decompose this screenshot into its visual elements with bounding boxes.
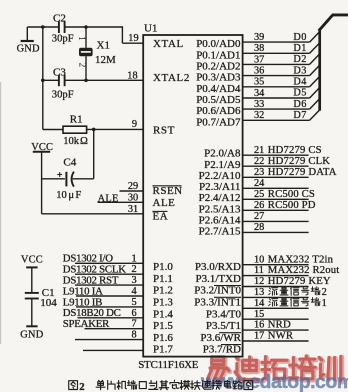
svg-text:37: 37 — [254, 54, 264, 65]
svg-text:P1.7: P1.7 — [153, 344, 173, 356]
svg-text:13: 13 — [254, 287, 264, 298]
wire pin 23 HD7279 DATA — [243, 176, 309, 178]
node junction crystal bottom — [84, 79, 88, 83]
svg-text:P1.4: P1.4 — [153, 308, 173, 320]
svg-text:30pF: 30pF — [52, 90, 74, 101]
wire pin 25 RC500 CS — [243, 198, 309, 200]
svg-text:21: 21 — [254, 145, 264, 156]
resistor R1 — [43, 129, 63, 131]
svg-text:12: 12 — [254, 276, 264, 287]
wire pin 21 HD7279 CS — [243, 154, 309, 156]
svg-text:9: 9 — [132, 119, 137, 130]
svg-text:23: 23 — [254, 167, 264, 178]
node junction R1-C4 — [92, 128, 96, 132]
svg-text:P3.4/T0: P3.4/T0 — [206, 308, 242, 320]
svg-text:P1.5: P1.5 — [153, 320, 173, 332]
svg-text:16: 16 — [254, 320, 264, 331]
capacitor C1 — [25, 292, 39, 294]
svg-text:P2.2/A10: P2.2/A10 — [199, 170, 241, 182]
wire C4 up to R1 node — [93, 129, 95, 178]
wire rail to C3 — [43, 79, 58, 81]
svg-text:NWR: NWR — [268, 330, 294, 342]
wire pin30 ALE — [98, 201, 144, 203]
wire pin 6 DS18B20 DC — [78, 317, 144, 319]
svg-text:39: 39 — [254, 32, 264, 43]
svg-text:D0: D0 — [293, 32, 306, 43]
watermark blue url www.edatop.com — [200, 371, 348, 392]
wire pin 7 SPEAKER — [85, 328, 144, 330]
svg-text:17: 17 — [254, 331, 264, 342]
svg-text:7: 7 — [131, 319, 136, 330]
scan edge artifact — [0, 82, 2, 344]
svg-text:8: 8 — [131, 330, 136, 341]
svg-text:VCC: VCC — [21, 254, 43, 265]
svg-text:31: 31 — [128, 204, 138, 215]
svg-text:μ: μ — [68, 190, 74, 201]
svg-text:GND: GND — [20, 330, 43, 341]
svg-text:D4: D4 — [293, 77, 306, 88]
wire pin 36 data line D3 — [243, 75, 310, 77]
svg-text:19: 19 — [128, 33, 138, 44]
node junction at ground rail top — [41, 25, 45, 29]
wire pin 28 stub — [243, 231, 309, 233]
svg-text:14: 14 — [254, 298, 264, 309]
svg-text:27: 27 — [254, 211, 264, 222]
svg-text:P3.0/RXD: P3.0/RXD — [195, 261, 241, 273]
svg-text:D3: D3 — [293, 65, 306, 76]
svg-text:104: 104 — [40, 297, 57, 309]
watermark red text 易迪拓培训 — [207, 356, 342, 382]
wire pin 22 HD7279 CLK — [243, 165, 309, 167]
svg-text:Ω: Ω — [80, 136, 88, 147]
ground symbol lower — [26, 325, 37, 327]
svg-text:10: 10 — [56, 190, 67, 201]
svg-text:2: 2 — [322, 287, 327, 298]
svg-text:P3.2/INT0: P3.2/INT0 — [194, 285, 241, 297]
wire C3 to pin18 XTAL2 — [65, 79, 143, 81]
svg-text:X1: X1 — [97, 40, 110, 52]
svg-text:P3.7/RD: P3.7/RD — [203, 344, 241, 356]
wire VCC to pin31 EA — [42, 213, 144, 215]
node junction crystal top — [84, 25, 88, 29]
svg-text:HD7279 DATA: HD7279 DATA — [268, 166, 337, 178]
svg-text:P3.6/WR: P3.6/WR — [200, 332, 241, 344]
svg-text:3: 3 — [131, 275, 136, 286]
svg-text:P1.6: P1.6 — [153, 332, 173, 344]
svg-text:P1.3: P1.3 — [153, 297, 173, 309]
wire pin 33 data line D6 — [243, 108, 310, 110]
svg-text:24: 24 — [254, 178, 264, 189]
svg-text:15: 15 — [254, 309, 264, 320]
VCC rail wire — [41, 152, 43, 214]
svg-text:U1: U1 — [144, 23, 157, 35]
svg-text:P0.0/AD0: P0.0/AD0 — [196, 38, 241, 50]
wire pin 4 L9110 IA — [76, 295, 143, 297]
wire pin 8 pin 8 stub — [75, 339, 143, 341]
IC U1 box STC11F16XE — [143, 35, 242, 357]
wire pin 39 data line D0 — [243, 41, 310, 43]
crystal X1 — [85, 27, 87, 48]
svg-text:22: 22 — [254, 156, 264, 167]
wire pin 3 DS1302 RST — [75, 284, 143, 286]
wire pin 26 RC500 PD — [243, 209, 309, 211]
capacitor C3 — [58, 75, 60, 87]
wire pin 1 DS1302 I/O — [75, 262, 143, 264]
svg-text:28: 28 — [254, 222, 264, 233]
svg-text:1: 1 — [322, 298, 327, 309]
wire pin 10 MAX232 T2in — [243, 264, 309, 266]
svg-text:26: 26 — [254, 200, 264, 211]
svg-text:P0.7/AD7: P0.7/AD7 — [196, 116, 241, 128]
svg-text:P0.6/AD6: P0.6/AD6 — [196, 105, 241, 117]
svg-text:www.edatop.com: www.edatop.com — [200, 371, 348, 392]
svg-text:4: 4 — [131, 286, 136, 297]
svg-text:29: 29 — [128, 181, 138, 192]
data bus corner to top right — [319, 15, 333, 31]
svg-text:R1: R1 — [70, 113, 83, 125]
wire pin 38 data line D1 — [243, 52, 310, 54]
svg-text:34: 34 — [254, 88, 264, 99]
svg-text:12M: 12M — [95, 54, 116, 66]
svg-text:EA: EA — [153, 211, 169, 223]
svg-text:SPEAKER: SPEAKER — [63, 318, 110, 330]
wire pin 34 data line D5 — [243, 97, 310, 99]
svg-text:33: 33 — [254, 99, 264, 110]
wire pin 13 流量信号端2 — [243, 296, 309, 298]
svg-text:RC500 PD: RC500 PD — [268, 199, 316, 211]
svg-text:STC11F16XE: STC11F16XE — [138, 359, 199, 371]
svg-text:P1.1: P1.1 — [153, 273, 173, 285]
ground rail wire — [42, 27, 44, 130]
svg-text:2: 2 — [79, 381, 84, 392]
data bus vertical — [318, 29, 321, 110]
svg-text:ALE: ALE — [153, 197, 176, 209]
wire pin 37 data line D2 — [243, 63, 310, 65]
wire pin 12 HD7279 KEY — [243, 286, 309, 288]
svg-text:30: 30 — [128, 192, 138, 203]
wire pin 17 NWR — [243, 340, 309, 342]
svg-text:1: 1 — [131, 253, 136, 264]
svg-text:25: 25 — [254, 189, 264, 200]
svg-text:XTAL: XTAL — [153, 38, 184, 50]
svg-text:11: 11 — [254, 265, 264, 276]
caption 图2 单片机端口与其它模块连接电路图 — [69, 380, 253, 392]
svg-text:XTAL2: XTAL2 — [153, 72, 190, 84]
wire pin29 stub RSEN — [120, 190, 144, 192]
svg-text:2: 2 — [76, 63, 86, 68]
svg-text:10: 10 — [254, 254, 264, 265]
capacitor C2 — [58, 22, 60, 34]
svg-text:P3.1/TXD: P3.1/TXD — [195, 273, 241, 285]
svg-text:P3.5/T1: P3.5/T1 — [206, 320, 241, 332]
wire pin 16 NRD — [243, 329, 309, 331]
svg-text:6: 6 — [131, 308, 136, 319]
wire GND to C2 and corner to pin19 — [27, 26, 58, 28]
svg-text:10k: 10k — [63, 136, 80, 147]
svg-text:D1: D1 — [293, 43, 306, 54]
svg-text:RSEN: RSEN — [153, 185, 183, 197]
wire pin 2 DS1302 SCLK — [75, 273, 143, 275]
svg-text:C2: C2 — [53, 12, 66, 24]
svg-text:P3.3/INT1: P3.3/INT1 — [194, 297, 241, 309]
ground symbol top-left — [26, 27, 28, 40]
wire pin 27 stub — [243, 220, 309, 222]
wire pin 11 MAX232 R2out — [243, 275, 309, 277]
wire C1 to GND — [31, 299, 33, 327]
wire pin 5 L9110 IB — [76, 306, 143, 308]
svg-text:C4: C4 — [63, 157, 76, 169]
wire pin 15 stub — [243, 318, 309, 320]
wire pin 35 data line D4 — [243, 86, 310, 88]
wire pin 32 data line D7 — [243, 119, 310, 121]
svg-text:5: 5 — [131, 297, 136, 308]
svg-text:RST: RST — [153, 125, 175, 137]
svg-text:32: 32 — [254, 110, 264, 121]
svg-text:P0.3/AD3: P0.3/AD3 — [196, 72, 241, 84]
svg-text:2: 2 — [131, 264, 136, 275]
svg-text:D6: D6 — [293, 99, 306, 110]
wire pin 14 流量信号端1 — [243, 307, 309, 309]
svg-text:36: 36 — [254, 66, 264, 77]
svg-text:35: 35 — [254, 77, 264, 88]
wire R1 to pin9 RST — [87, 128, 144, 130]
svg-text:D2: D2 — [293, 54, 306, 65]
svg-text:30pF: 30pF — [52, 33, 74, 44]
svg-text:HD7279 KEY: HD7279 KEY — [268, 275, 331, 287]
wire pin 24 stub — [243, 187, 309, 189]
svg-text:C3: C3 — [53, 66, 66, 78]
svg-text:P1.2: P1.2 — [153, 285, 173, 297]
svg-text:D7: D7 — [293, 110, 306, 121]
svg-text:F: F — [75, 190, 81, 201]
svg-text:38: 38 — [254, 43, 264, 54]
svg-text:D5: D5 — [293, 88, 306, 99]
node junction C3 rail — [41, 79, 45, 83]
svg-text:P2.7/A15: P2.7/A15 — [199, 226, 241, 238]
svg-text:P0.2/AD2: P0.2/AD2 — [196, 60, 240, 72]
svg-text:1: 1 — [76, 36, 86, 41]
svg-text:P0.4/AD4: P0.4/AD4 — [196, 83, 241, 95]
svg-text:GND: GND — [17, 44, 40, 55]
wire unnumbered stub below pin 8 — [83, 349, 143, 351]
wire VCC to C1 — [31, 267, 33, 292]
svg-text:18: 18 — [127, 70, 137, 81]
svg-text:P1.0: P1.0 — [153, 261, 173, 273]
capacitor C4 electrolytic — [42, 178, 65, 180]
